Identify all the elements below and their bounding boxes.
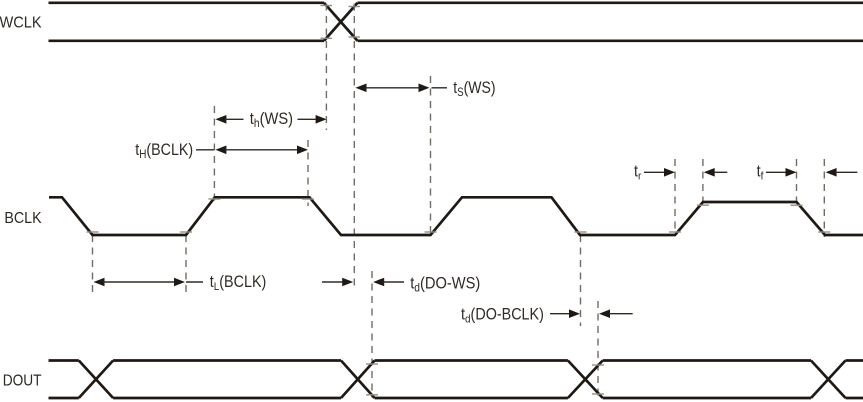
- wire WCLK crossover falling diagonal: [324, 3, 358, 41]
- reference dashed line x=372 DOUT transition for td(DO-WS): [371, 271, 373, 398]
- svg-text:tr: tr: [634, 163, 642, 183]
- dimension tf left outside line: [766, 171, 787, 173]
- dimension td(DO-BCLK) left outside line: [550, 313, 571, 315]
- dimension td(DO-BCLK) right outside head pointing left: [599, 309, 610, 318]
- node tick BCLK fall bottom at x=580: [575, 231, 587, 233]
- dimension td(DO-WS) right outside line: [383, 281, 404, 283]
- dimension tr left outside head pointing right: [664, 168, 675, 177]
- reference dashed line x=598 DOUT transition for td(DO-BCLK): [597, 301, 599, 399]
- dimension th(WS) right line: [298, 118, 318, 120]
- dimension tH(BCLK) arrow left head: [215, 146, 226, 155]
- svg-text:tf: tf: [757, 163, 764, 183]
- node tick WCLK left line lower crossing: [321, 37, 333, 39]
- dimension tH(BCLK) arrow right head: [297, 146, 308, 155]
- reference dashed line x=675 tr start: [674, 159, 676, 236]
- reference dashed line x=703 tr end: [702, 159, 704, 208]
- dimension tS(WS) arrow line: [366, 87, 420, 89]
- node tick DOUT X2 lower: [366, 394, 378, 396]
- wire DOUT crossover X2: [341, 361, 375, 399]
- reference dashed line x=326 WCLK hold edge: [325, 4, 327, 131]
- node tick BCLK rise at x=430: [425, 231, 437, 233]
- dimension tf right outside line: [836, 171, 858, 173]
- dimension tS(WS) arrow left head: [356, 84, 367, 93]
- node tick DOUT X3 upper: [592, 364, 604, 366]
- node tick BCLK low right corner: [180, 231, 192, 233]
- svg-text:tL(BCLK): tL(BCLK): [210, 273, 267, 293]
- dimension tS(WS) arrow right head: [419, 84, 430, 93]
- dimension th(WS) arrow right head: [316, 115, 327, 124]
- node tick DOUT X3 lower: [592, 393, 604, 395]
- dimension tr right outside line: [714, 171, 728, 173]
- dimension tL(BCLK) arrow line: [103, 281, 176, 283]
- svg-text:BCLK: BCLK: [4, 210, 41, 227]
- node tick WCLK right line lower crossing: [349, 36, 361, 38]
- reference dashed line x=354 WCLK setup edge: [353, 4, 355, 292]
- dimension tf right outside head pointing left: [826, 168, 837, 177]
- wire DOUT top rail segments: [49, 359, 863, 362]
- svg-text:td(DO-WS): td(DO-WS): [410, 275, 480, 295]
- node tick BCLK high left corner: [208, 198, 220, 200]
- dimension tL(BCLK) leader line: [186, 281, 203, 283]
- wire WCLK top rail left: [49, 1, 325, 4]
- dimension td(DO-BCLK) left outside head pointing right: [569, 309, 580, 318]
- wire WCLK bottom rail left: [49, 39, 325, 42]
- dimension td(DO-BCLK) right outside line: [609, 313, 633, 315]
- dimension tH(BCLK) leader line: [196, 149, 214, 151]
- node tick tf end corner: [818, 231, 830, 233]
- node tick tr end corner: [697, 204, 709, 206]
- node tick DOUT X2 upper: [366, 363, 378, 365]
- reference dashed line x=92 BCLK low left: [92, 235, 94, 295]
- reference dashed line x=186 BCLK low right: [185, 235, 187, 295]
- dimension tf left outside head pointing right: [786, 168, 797, 177]
- svg-text:td(DO-BCLK): td(DO-BCLK): [461, 306, 544, 326]
- node tick tf start corner: [791, 204, 803, 206]
- dimension th(WS) arrow left head: [215, 115, 226, 124]
- wire DOUT crossover X3: [568, 361, 603, 399]
- node tick WCLK left line upper crossing: [321, 5, 333, 7]
- svg-text:th(WS): th(WS): [250, 110, 293, 130]
- reference dashed line x=796 tf start: [796, 159, 798, 208]
- wire WCLK bottom rail right: [358, 39, 863, 42]
- node tick BCLK high right corner: [302, 198, 314, 200]
- svg-text:DOUT: DOUT: [3, 373, 42, 390]
- dimension tS(WS) leader line: [432, 87, 448, 89]
- node tick tr start corner: [669, 231, 681, 233]
- dimension tH(BCLK) arrow line: [225, 149, 299, 151]
- wire BCLK waveform: [49, 197, 863, 235]
- reference dashed line x=308 BCLK fall corner: [307, 140, 309, 206]
- reference dashed line x=824 tf end: [823, 159, 825, 237]
- svg-text:tS(WS): tS(WS): [453, 79, 495, 99]
- dimension tr left outside line: [644, 171, 666, 173]
- wire DOUT crossover X1: [79, 361, 113, 399]
- dimension tL(BCLK) arrow left head: [94, 278, 105, 287]
- dimension tL(BCLK) arrow right head: [174, 278, 185, 287]
- wire DOUT bottom rail segments: [49, 397, 863, 400]
- dimension td(DO-WS) right outside head pointing left: [373, 278, 384, 287]
- reference dashed line x=214 BCLK rise corner: [213, 106, 215, 205]
- node tick WCLK right line upper crossing: [349, 6, 361, 8]
- dimension tr right outside head pointing left: [704, 168, 715, 177]
- node tick BCLK low left corner: [87, 231, 99, 233]
- reference dashed line x=580 BCLK fall for td(DO-BCLK): [580, 235, 582, 326]
- dimension th(WS) left line: [225, 118, 244, 120]
- wire WCLK crossover rising diagonal: [324, 3, 358, 41]
- wire WCLK top rail right: [358, 1, 863, 4]
- dimension td(DO-WS) left outside line: [322, 281, 343, 283]
- svg-text:WCLK: WCLK: [0, 14, 42, 32]
- svg-text:tH(BCLK): tH(BCLK): [135, 141, 193, 161]
- wire DOUT crossover X4: [811, 361, 846, 399]
- dimension td(DO-WS) left outside head pointing right: [342, 278, 353, 287]
- reference dashed line x=430 BCLK rising edge: [430, 76, 432, 236]
